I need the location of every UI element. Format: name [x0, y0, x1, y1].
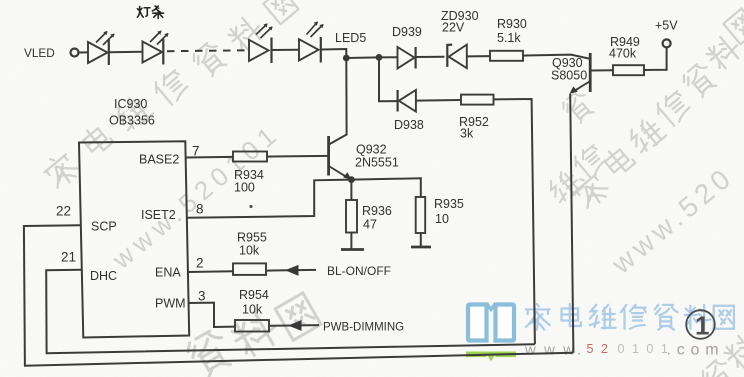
- svg-text:.com: .com: [667, 342, 725, 359]
- wire D938 to R952: [416, 99, 461, 102]
- svg-text:470k: 470k: [609, 47, 637, 61]
- node LED5 junction dot: [343, 55, 350, 62]
- wire emitter node to R936: [350, 180, 352, 200]
- wire Q930 emitter down to SCP loop: [570, 94, 573, 353]
- svg-text:OB3356: OB3356: [109, 114, 155, 128]
- wire pin22 SCP loop: [24, 225, 574, 365]
- svg-text:21: 21: [61, 250, 76, 265]
- svg-text:1: 1: [695, 311, 709, 341]
- svg-text:R954: R954: [239, 288, 269, 302]
- ink speck: [249, 205, 252, 208]
- circled 1 mark: [686, 310, 715, 340]
- zener ZD930: [447, 45, 467, 69]
- LED D3 (lamp bar): [249, 23, 273, 63]
- wire R949 to +5V terminal: [644, 48, 667, 70]
- wire pin7 BASE2 to R934: [186, 156, 233, 159]
- svg-text:ISET2: ISET2: [141, 208, 176, 222]
- resistor R936: [346, 200, 357, 233]
- LED D1 (lamp bar): [88, 31, 115, 65]
- wire R952 to DHC loop: [494, 99, 535, 344]
- IC930 OB3356 box: [79, 141, 189, 337]
- svg-text:2: 2: [196, 256, 204, 271]
- wire node to D939 anode: [379, 56, 398, 58]
- wire pin2 ENA to R955: [188, 270, 233, 273]
- wire D939 to ZD930: [416, 56, 445, 58]
- diode D939: [398, 47, 416, 69]
- svg-text:R955: R955: [237, 231, 267, 245]
- resistor R934: [233, 152, 267, 162]
- svg-text:100: 100: [234, 181, 255, 195]
- label lamp-bar (deng tiao): [137, 6, 163, 19]
- wire R935 to ground: [420, 233, 422, 246]
- wire ZD930 to R930: [467, 55, 490, 57]
- wire LED1 to LED2: [109, 51, 143, 53]
- svg-text:R936: R936: [362, 204, 392, 218]
- wire VLED to LED1: [79, 51, 89, 53]
- diode D938: [398, 90, 416, 112]
- resistor R935: [416, 197, 426, 233]
- node D938 branch junction dot: [376, 54, 383, 61]
- wire R955 to BL-ON/OFF with arrow: [266, 269, 316, 272]
- svg-text:D938: D938: [394, 118, 424, 132]
- terminal +5V: [663, 39, 671, 47]
- wire pin3 PWM to R954: [189, 303, 236, 327]
- watermark mid chars: [546, 167, 584, 205]
- transistor Q932 2N5551: [329, 136, 352, 180]
- wire node LED5 to node D938: [346, 56, 379, 59]
- svg-text:S8050: S8050: [551, 69, 587, 83]
- wire node down to D938 row: [379, 57, 398, 101]
- svg-text:10: 10: [435, 212, 449, 226]
- svg-text:BL-ON/OFF: BL-ON/OFF: [327, 264, 391, 278]
- watermark bottom-right faint: [700, 357, 739, 377]
- green ribbon under book: [466, 352, 516, 362]
- watermark www.520 right: [605, 160, 740, 280]
- svg-text:2N5551: 2N5551: [355, 156, 399, 170]
- wire LED4 to node LED5: [321, 49, 346, 58]
- svg-text:IC930: IC930: [114, 97, 147, 111]
- svg-text:22: 22: [56, 204, 71, 219]
- dashed wire (omitted LEDs): [167, 49, 249, 52]
- logo url row: [524, 342, 724, 359]
- svg-text:10k: 10k: [242, 303, 263, 317]
- svg-text:+5V: +5V: [655, 19, 678, 33]
- svg-text:3k: 3k: [460, 127, 474, 141]
- ground (R935): [411, 246, 431, 249]
- resistor R952: [461, 95, 494, 105]
- node Q932 emitter junction dot: [348, 176, 355, 183]
- svg-text:10k: 10k: [239, 244, 260, 258]
- wire pin21 DHC loop: [46, 270, 535, 353]
- ground (R936): [341, 248, 364, 251]
- svg-text:SCP: SCP: [91, 220, 117, 234]
- watermark diag line left: [40, 150, 81, 191]
- resistor R955: [233, 263, 266, 275]
- svg-text:BASE2: BASE2: [139, 153, 179, 167]
- svg-text:47: 47: [363, 218, 377, 232]
- svg-text:R930: R930: [497, 17, 527, 31]
- svg-text:LED5: LED5: [335, 31, 366, 45]
- svg-text:R935: R935: [434, 197, 464, 211]
- wire node LED5 down to Q932 collector: [330, 58, 347, 144]
- svg-text:DHC: DHC: [90, 269, 117, 283]
- watermark bottom-left chars: [184, 327, 235, 377]
- resistor R930: [490, 51, 523, 61]
- svg-text:VLED: VLED: [24, 46, 55, 60]
- wire pin8 ISET2 to emitter node: [187, 180, 352, 218]
- logo chinese characters: [526, 304, 734, 330]
- wire R930 to Q930 collector: [523, 55, 589, 59]
- svg-text:D939: D939: [392, 25, 422, 39]
- svg-text:8: 8: [196, 202, 204, 217]
- wire R934 to Q932 base: [267, 155, 329, 158]
- svg-text:52: 52: [587, 342, 616, 356]
- svg-text:5.1k: 5.1k: [497, 31, 521, 45]
- svg-text:ENA: ENA: [155, 266, 181, 280]
- LED D2 (lamp bar): [143, 31, 169, 65]
- svg-text:.: .: [577, 342, 581, 359]
- svg-text:PWM: PWM: [155, 297, 186, 311]
- svg-text:Q932: Q932: [356, 143, 387, 157]
- svg-text:3: 3: [198, 289, 206, 304]
- svg-text:PWB-DIMMING: PWB-DIMMING: [323, 322, 404, 334]
- transistor Q930 S8050: [570, 53, 591, 94]
- wire emitter node to R935: [351, 178, 420, 197]
- resistor R949: [613, 65, 644, 75]
- svg-text:7: 7: [192, 144, 200, 159]
- watermark www.520101 center: [106, 117, 286, 275]
- watermark logo book icon: [468, 305, 514, 341]
- book spine notch: [487, 303, 496, 310]
- terminal VLED: [71, 49, 79, 57]
- watermark right CJK line: [570, 170, 611, 211]
- wire R936 to ground: [350, 233, 352, 249]
- wire Q930 base to R949: [591, 69, 613, 71]
- LED D4 (lamp bar): [299, 22, 324, 63]
- wire LED3 to LED4: [272, 49, 299, 51]
- svg-text:22V: 22V: [442, 21, 465, 35]
- wire R954 to PWB-DIMMING with arrow: [269, 324, 319, 327]
- resistor R954: [235, 320, 269, 332]
